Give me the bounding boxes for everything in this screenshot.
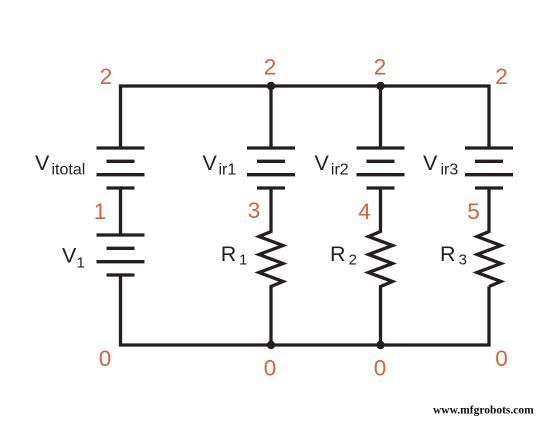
svg-text:2: 2: [100, 64, 113, 89]
svg-text:2: 2: [264, 55, 277, 80]
label V1: [62, 243, 85, 271]
junction top b3: [376, 82, 384, 90]
svg-text:ir1: ir1: [219, 162, 237, 179]
svg-text:V: V: [423, 151, 438, 175]
svg-text:1: 1: [239, 251, 247, 268]
battery V_ir1: [247, 148, 295, 188]
wire top rail: [121, 86, 490, 148]
svg-text:0: 0: [374, 356, 387, 381]
svg-text:1: 1: [94, 199, 107, 224]
svg-text:2: 2: [495, 64, 508, 89]
label V_itotal: [35, 151, 85, 179]
svg-text:3: 3: [459, 251, 467, 268]
svg-text:V: V: [35, 151, 50, 175]
label R3: [440, 242, 467, 268]
svg-text:R: R: [221, 242, 237, 266]
wire branch2 top: [269, 86, 272, 148]
label V_ir3: [423, 151, 458, 179]
svg-text:0: 0: [495, 346, 508, 371]
wire node1 branch1: [119, 188, 122, 235]
battery V_ir3: [465, 148, 513, 188]
label R2: [330, 242, 357, 268]
svg-text:V: V: [203, 151, 218, 175]
svg-text:itotal: itotal: [52, 162, 86, 179]
svg-text:1: 1: [77, 255, 85, 272]
battery V1: [97, 235, 145, 275]
svg-text:R: R: [330, 242, 346, 266]
svg-text:3: 3: [248, 198, 261, 223]
svg-text:0: 0: [99, 346, 112, 371]
junction top b2: [267, 82, 275, 90]
svg-text:R: R: [440, 242, 456, 266]
svg-text:www.mfgrobots.com: www.mfgrobots.com: [433, 405, 534, 417]
junction bottom b3: [376, 341, 384, 349]
wire bottom rail: [121, 275, 490, 345]
svg-text:ir2: ir2: [331, 162, 349, 179]
resistor R1: [259, 188, 283, 345]
battery V_ir2: [357, 148, 405, 188]
label R1: [221, 242, 248, 268]
svg-text:5: 5: [467, 199, 480, 224]
svg-text:0: 0: [264, 356, 277, 381]
svg-text:4: 4: [358, 199, 371, 224]
junction bottom b2: [267, 341, 275, 349]
resistor R3: [477, 188, 501, 287]
svg-text:V: V: [62, 243, 77, 267]
resistor R2: [369, 188, 393, 345]
svg-text:ir3: ir3: [441, 162, 459, 179]
svg-text:2: 2: [349, 251, 357, 268]
label V_ir1: [203, 151, 237, 179]
svg-text:2: 2: [374, 55, 387, 80]
wire branch3 top: [379, 86, 382, 148]
battery V_itotal: [97, 148, 145, 188]
label V_ir2: [315, 151, 349, 179]
svg-text:V: V: [315, 151, 330, 175]
